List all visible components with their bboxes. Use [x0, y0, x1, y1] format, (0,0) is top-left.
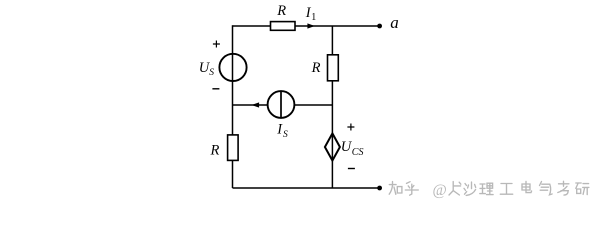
current arrow I1 [307, 23, 315, 28]
watermark char @ [433, 182, 447, 199]
watermark char 气 [540, 182, 553, 195]
watermark char 工 [500, 184, 512, 195]
watermark char 知 [389, 182, 402, 195]
wire middle (IS branch) [233, 104, 333, 106]
label R (top resistor value) [276, 3, 286, 19]
current source IS (circle with vertical bar) [268, 91, 295, 118]
watermark char 研 [576, 183, 589, 195]
watermark char 理 [480, 183, 493, 194]
watermark char 考 [558, 181, 569, 195]
label US [199, 60, 215, 78]
watermark char 沙 [464, 182, 476, 195]
wire right branch (R / UCS branch) [331, 26, 333, 188]
svg-text:R: R [210, 143, 220, 159]
plus sign of US [213, 41, 220, 48]
wire top (node from US top to node a) [233, 25, 380, 27]
resistor R (top) [271, 22, 296, 31]
current arrow IS (points left) [252, 102, 260, 107]
svg-text:S: S [283, 130, 288, 140]
resistor R (right branch) [328, 55, 339, 81]
wire bottom (return to lower terminal) [233, 187, 380, 189]
svg-text:S: S [209, 68, 214, 78]
watermark char 乎 [405, 182, 418, 196]
terminal dot lower [377, 186, 382, 191]
label R (right resistor) [311, 60, 321, 76]
plus sign of UCS [347, 124, 354, 131]
terminal dot a [377, 24, 382, 29]
minus sign of UCS [348, 168, 355, 170]
svg-text:CS: CS [352, 147, 364, 158]
dependent source UCS (diamond, wire passes through) [325, 133, 340, 160]
label R (left resistor) [210, 143, 220, 159]
label IS [276, 122, 288, 141]
resistor R (left lower branch) [228, 135, 239, 161]
watermark char 电 [522, 181, 532, 192]
svg-text:a: a [390, 13, 399, 32]
wire left branch (US / R branch) [232, 25, 234, 188]
watermark "知乎 @长沙理工电气考研" (light gray) [389, 181, 589, 199]
svg-text:@: @ [433, 182, 447, 199]
node a label [390, 13, 399, 32]
svg-text:1: 1 [311, 12, 316, 23]
minus sign of US [212, 88, 219, 90]
label UCS [341, 139, 364, 158]
watermark char 长 [449, 182, 461, 195]
voltage source US (circle, wire passes through) [219, 54, 246, 81]
svg-text:R: R [276, 3, 286, 19]
svg-text:R: R [311, 60, 321, 76]
label I1 [305, 5, 316, 23]
